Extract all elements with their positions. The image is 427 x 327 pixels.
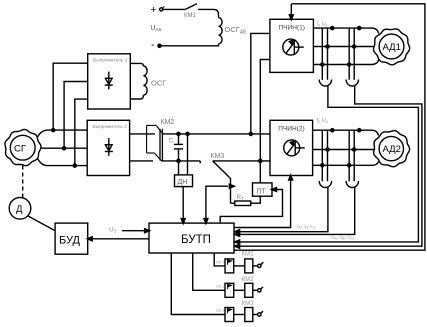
svg-text:UЗ: UЗ xyxy=(109,227,117,234)
svg-text:БУД: БУД xyxy=(59,235,80,247)
svg-text:ПЧИН(1): ПЧИН(1) xyxy=(279,25,305,32)
svg-text:UА2 UВ2 UС2: UА2 UВ2 UС2 xyxy=(331,235,355,241)
svg-text:КМ3: КМ3 xyxy=(211,153,225,160)
svg-text:БУТП: БУТП xyxy=(181,234,211,246)
svg-text:КМ1: КМ1 xyxy=(184,13,196,19)
svg-text:Выпрямитель 2: Выпрямитель 2 xyxy=(93,124,128,130)
svg-text:КМ2: КМ2 xyxy=(242,276,255,283)
svg-text:ДН: ДН xyxy=(178,179,188,186)
svg-text:СГ: СГ xyxy=(14,144,26,155)
svg-text:Выпрямитель 1: Выпрямитель 1 xyxy=(93,58,128,64)
svg-text:ОСГАБ: ОСГАБ xyxy=(225,25,248,36)
svg-text:RТ: RТ xyxy=(237,194,245,201)
svg-text:АД2: АД2 xyxy=(383,144,401,155)
svg-text:+: + xyxy=(150,4,156,16)
svg-text:ПЧИН(2): ПЧИН(2) xyxy=(278,126,304,133)
svg-text:КМ3: КМ3 xyxy=(242,300,255,307)
svg-text:ПТ: ПТ xyxy=(257,189,267,196)
svg-text:ОСГ: ОСГ xyxy=(151,79,166,88)
svg-text:КМ2: КМ2 xyxy=(161,119,175,126)
svg-text:С: С xyxy=(169,138,174,145)
svg-text:АД1: АД1 xyxy=(383,42,401,53)
svg-text:ПР 1: ПР 1 xyxy=(216,261,224,265)
svg-text:КМ1: КМ1 xyxy=(242,251,255,258)
svg-text:UАБ: UАБ xyxy=(150,25,161,32)
svg-text:f1 U1: f1 U1 xyxy=(317,22,329,29)
svg-text:f2 U2: f2 U2 xyxy=(317,118,329,125)
svg-text:IА2 IВ2 IС2: IА2 IВ2 IС2 xyxy=(297,224,315,230)
svg-text:-: - xyxy=(151,39,155,51)
svg-text:Д: Д xyxy=(16,204,23,215)
svg-text:ПР 3: ПР 3 xyxy=(216,309,224,313)
svg-text:ПР 2: ПР 2 xyxy=(216,285,224,289)
